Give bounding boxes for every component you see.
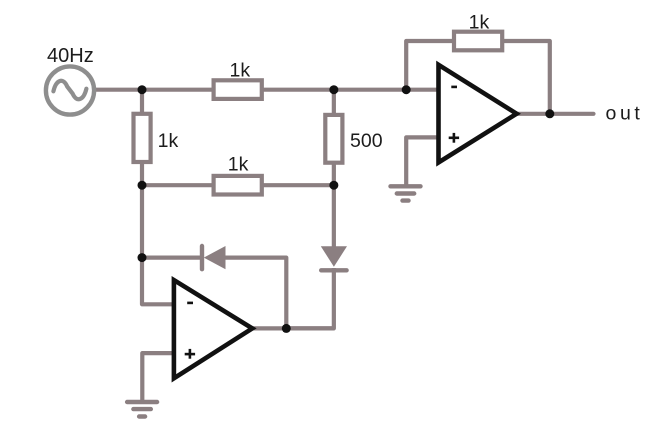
resistor R3 1k (feedback, horizontal) <box>454 32 502 51</box>
node A (source / R1 / R2 junction) <box>138 85 147 94</box>
node E (R4 / R5 junction) <box>329 181 338 190</box>
wire: node H to out terminal <box>550 112 594 116</box>
wire: node A to node B (top row, under R1) <box>142 88 334 92</box>
wire: mid rail node B to node E (under R4) <box>332 90 336 186</box>
wire: node B to node C <box>334 88 406 92</box>
resistor R5 1k (mid horizontal) <box>214 176 262 195</box>
wire: op-amp U1 non-inverting input to ground stem <box>406 137 440 186</box>
node B (R1 / R4 junction) <box>329 85 338 94</box>
wire: node F to op-amp U2 inverting input <box>142 258 175 305</box>
wire: op-amp U2 output to node G <box>250 326 334 330</box>
wire: diode D2 cathode to node G <box>286 268 334 328</box>
diode D1 (horizontal, cathode left) <box>202 246 226 269</box>
wire: node C up and right to R3 (feedback) <box>406 41 480 90</box>
wire: source to node A <box>94 88 142 92</box>
op-amp U1 (output stage) <box>439 65 517 163</box>
resistor R2 1k (left vertical) <box>134 114 151 162</box>
wire: node E to diode D2 anode <box>332 185 336 248</box>
node F (diode D1 / U2 input junction) <box>138 253 147 262</box>
svg-text:out: out <box>606 103 644 125</box>
svg-text:40Hz: 40Hz <box>47 45 94 67</box>
svg-text:1k: 1k <box>469 12 490 34</box>
node C (U1 inverting input / feedback junction) <box>402 85 411 94</box>
svg-text:1k: 1k <box>158 130 179 152</box>
ground GND1 (op-amp U1 non-inverting input) <box>391 186 421 200</box>
diode D2 (vertical, cathode bottom) <box>321 246 347 270</box>
wire: left rail node D to node F <box>140 185 144 257</box>
node G (U2 output junction) <box>282 324 291 333</box>
node D (R2 / R5 junction) <box>138 181 147 190</box>
svg-text:500: 500 <box>350 130 383 152</box>
wire: op-amp U1 output to node H <box>514 112 550 116</box>
resistor R1 1k (top horizontal) <box>214 80 262 99</box>
node H (U1 output junction) <box>545 109 554 118</box>
wire: node D to node E (mid row, under R5) <box>142 183 334 187</box>
wire: op-amp U2 non-inverting input to ground stem <box>142 353 175 401</box>
wire: node C to op-amp U1 inverting input <box>406 88 440 92</box>
svg-text:1k: 1k <box>230 60 251 82</box>
wire: R3 to node H (feedback right side) <box>480 41 550 114</box>
wire: node F to diode D1 cathode <box>142 256 202 260</box>
resistor R4 500 (mid vertical) <box>325 115 342 163</box>
wire: diode D1 anode to node G <box>224 258 286 329</box>
ground GND2 (op-amp U2 non-inverting input) <box>127 402 157 417</box>
wire: left rail node A to node D (under R2) <box>140 90 144 186</box>
op-amp U2 (rectifier stage) <box>174 280 252 378</box>
voltage source V1 (40Hz sine source) <box>46 66 94 114</box>
svg-text:1k: 1k <box>228 154 249 176</box>
